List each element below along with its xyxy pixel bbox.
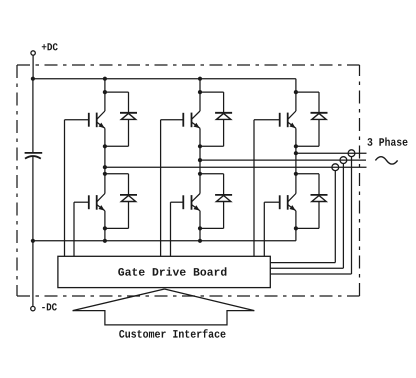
wire bus to capacitor C1 [32,79,34,153]
Gate Drive Board label [118,267,226,275]
IGBT Q2 body bar [191,113,193,128]
Customer Interface label [119,329,225,338]
diode D1 anode wire [128,119,130,146]
3 Phase label [367,137,407,145]
junction leg 1 bottom bus [103,239,107,243]
IGBT Q1 emitter arrow [99,123,105,129]
wire sense V vertical [342,164,344,269]
diode D5 cathode wire [223,174,225,195]
wire sense U return to board [270,262,335,264]
junction leg 2 lower diode split [198,172,202,176]
wire interface fan right [165,289,255,311]
IGBT Q1 collector stroke [97,111,105,119]
IGBT Q1 body bar [96,113,98,128]
IGBT Q3 gate lead [254,119,280,121]
wire leg 1 lower diode stub top [105,173,129,175]
IGBT Q6 gate bar [279,195,281,209]
junction leg 1 lower diode split [103,172,107,176]
IGBT Q5 emitter stroke [192,205,200,211]
wire gate Q2 to board [160,120,162,257]
diode D2 triangle [216,113,230,119]
IGBT Q3 gate bar [279,113,281,127]
wire sense V return to board [270,267,343,269]
wire gate Q1 to board [64,120,66,257]
wire capacitor C1 to bottom bus [32,156,34,241]
wire leg 3 upper diode stub bottom [296,145,319,147]
IGBT Q4 body bar [96,195,98,210]
customer interface outline [73,311,255,325]
junction leg 1 upper diode return [103,144,107,148]
wire bottom bus to -DC [32,241,34,307]
-DC terminal circle [31,306,35,310]
node phase V terminal [340,157,347,164]
wire leg 2 lower diode stub top [200,173,224,175]
junction leg 2 top bus [198,77,202,81]
diode D3 anode wire [318,119,320,146]
junction leg 1 top bus [103,77,107,81]
wire +DC to top bus [32,55,34,78]
diode D3 cathode bar [311,112,328,114]
IGBT Q6 collector stroke [288,194,296,202]
diode D1 cathode wire [128,92,130,113]
wire gate Q4 to board [73,202,75,256]
IGBT Q5 gate lead [171,201,184,203]
IGBT Q6 emitter arrow [290,205,296,211]
wire sense W return to board [270,273,351,275]
node leg 2 collector wire upper [199,79,201,111]
node leg 1 collector wire upper [104,79,106,111]
diode D1 triangle [121,113,135,119]
wire gate Q5 to board [170,202,172,256]
IGBT Q3 collector stroke [288,111,296,119]
wire sense U vertical [334,171,336,263]
wire interface fan left [73,289,165,311]
IGBT Q5 gate bar [182,195,184,209]
junction leg 2 upper diode return [198,144,202,148]
IGBT Q4 emitter arrow [99,205,105,211]
junction leg 3 lower diode split [294,172,298,176]
diode D3 cathode wire [318,92,320,113]
IGBT Q4 gate bar [88,195,90,209]
junction leg 1 upper diode split [103,90,107,94]
diode D5 anode wire [223,202,225,229]
IGBT Q3 body bar [287,113,289,128]
wire leg 1 upper diode stub top [105,91,129,93]
wire leg 3 upper diode stub top [296,91,319,93]
IGBT Q6 emitter stroke [288,205,296,211]
diode D1 cathode bar [120,112,137,114]
wire leg 3 phase vertical [295,128,297,193]
wire leg 3 lower diode stub top [296,173,319,175]
junction leg 3 lower diode return [294,226,298,230]
wire leg 3 lower emitter to bus [295,211,297,241]
capacitor C1 top plate [25,152,43,154]
capacitor C1 curved plate [25,156,41,159]
wire leg 2 upper diode stub top [200,91,224,93]
node leg 3 collector wire upper [295,79,297,111]
wire gate Q6 to board [263,202,265,256]
diode D6 cathode wire [318,174,320,195]
junction leg 2 bottom bus [198,239,202,243]
dashed enclosure border bottom [17,295,360,297]
IGBT Q1 gate lead [65,119,89,121]
IGBT Q1 gate bar [88,113,90,127]
diode D6 anode wire [318,202,320,229]
junction leg 3 upper diode split [294,90,298,94]
diode D2 cathode bar [215,112,232,114]
IGBT Q2 gate bar [182,113,184,127]
IGBT Q3 emitter stroke [288,122,296,128]
diode D4 triangle [121,196,135,202]
-DC label [42,303,57,310]
diode D4 anode wire [128,202,130,229]
junction leg 2 lower diode return [198,226,202,230]
diode D2 cathode wire [223,92,225,113]
+DC terminal circle [31,51,35,55]
IGBT Q4 gate lead [74,201,89,203]
junction bottom bus / -DC / capacitor [31,239,35,243]
junction leg 2 phase tap [198,158,202,162]
wire leg 2 upper diode stub bottom [200,145,224,147]
IGBT Q6 body bar [287,195,289,210]
dashed enclosure border right [359,65,361,296]
junction leg 2 upper diode split [198,90,202,94]
wire +DC top bus [33,78,296,80]
AC sine symbol [375,157,397,164]
diode D2 anode wire [223,119,225,146]
IGBT Q2 collector stroke [192,111,200,119]
wire -DC bottom bus [33,240,296,242]
wire leg 1 phase vertical [104,128,106,193]
IGBT Q5 body bar [191,195,193,210]
junction top bus / +DC / capacitor [31,77,35,81]
IGBT Q1 emitter stroke [97,122,105,128]
diode D5 cathode bar [215,194,232,196]
wire sense W vertical [351,157,353,274]
IGBT Q2 gate lead [161,119,184,121]
IGBT Q5 collector stroke [192,194,200,202]
wire phase U output [105,166,367,168]
IGBT Q4 collector stroke [97,194,105,202]
wire phase W output [296,152,367,154]
wire gate Q3 to board [253,120,255,257]
junction leg 3 phase tap [294,151,298,155]
gate drive board box [58,256,270,287]
wire leg 2 lower emitter to bus [199,211,201,241]
wire leg 3 lower diode stub bottom [296,227,319,229]
wire leg 2 phase vertical [199,128,201,193]
IGBT Q5 emitter arrow [194,205,200,210]
junction leg 1 phase tap [103,165,107,169]
diode D6 cathode bar [311,194,328,196]
IGBT Q3 emitter arrow [290,123,296,129]
node phase W terminal [348,150,355,157]
diode D3 triangle [312,113,326,119]
wire phase V output [200,159,366,161]
wire leg 2 lower diode stub bottom [200,227,224,229]
wire leg 1 lower emitter to bus [104,211,106,241]
junction leg 3 upper diode return [294,144,298,148]
dashed enclosure border top [17,64,360,66]
IGBT Q6 gate lead [264,201,279,203]
+DC label [42,43,58,50]
wire leg 1 lower diode stub bottom [105,227,129,229]
diode D6 triangle [312,196,326,202]
diode D4 cathode bar [120,194,137,196]
node phase U terminal [332,164,339,171]
IGBT Q2 emitter arrow [194,123,200,129]
diode D4 cathode wire [128,174,130,195]
IGBT Q4 emitter stroke [97,205,105,211]
IGBT Q2 emitter stroke [192,122,200,128]
diode D5 triangle [216,196,230,202]
junction leg 1 lower diode return [103,226,107,230]
dashed enclosure border left [16,65,18,296]
wire leg 1 upper diode stub bottom [105,145,129,147]
